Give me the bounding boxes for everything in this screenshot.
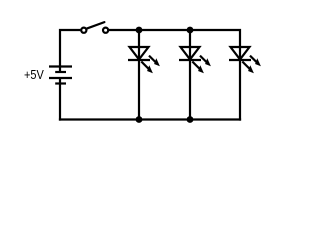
LED D3 (229, 47, 261, 73)
LED D1 (128, 47, 160, 73)
wire: LED D1 branch vertical (138, 30, 140, 120)
junction: node bottom of D1 branch (136, 116, 143, 123)
wire: battery negative stub down to bottom wire (59, 84, 61, 121)
LED D2 (179, 47, 211, 73)
svg-text:+5V: +5V (24, 67, 44, 82)
wire: battery positive stub up and top wire to switch left contact (60, 30, 80, 67)
wire: LED D2 branch vertical (189, 30, 191, 120)
switch S1 (SPST, open) (81, 22, 108, 33)
wire: top wire from switch right contact to top-right corner, down to LED3 (109, 30, 240, 121)
junction: node top of D2 branch (187, 27, 194, 34)
battery +5V (two cells) (49, 67, 72, 84)
wire: bottom return wire (59, 118, 241, 120)
junction: node bottom of D2 branch (187, 116, 194, 123)
junction: node top of D1 branch (136, 27, 143, 34)
